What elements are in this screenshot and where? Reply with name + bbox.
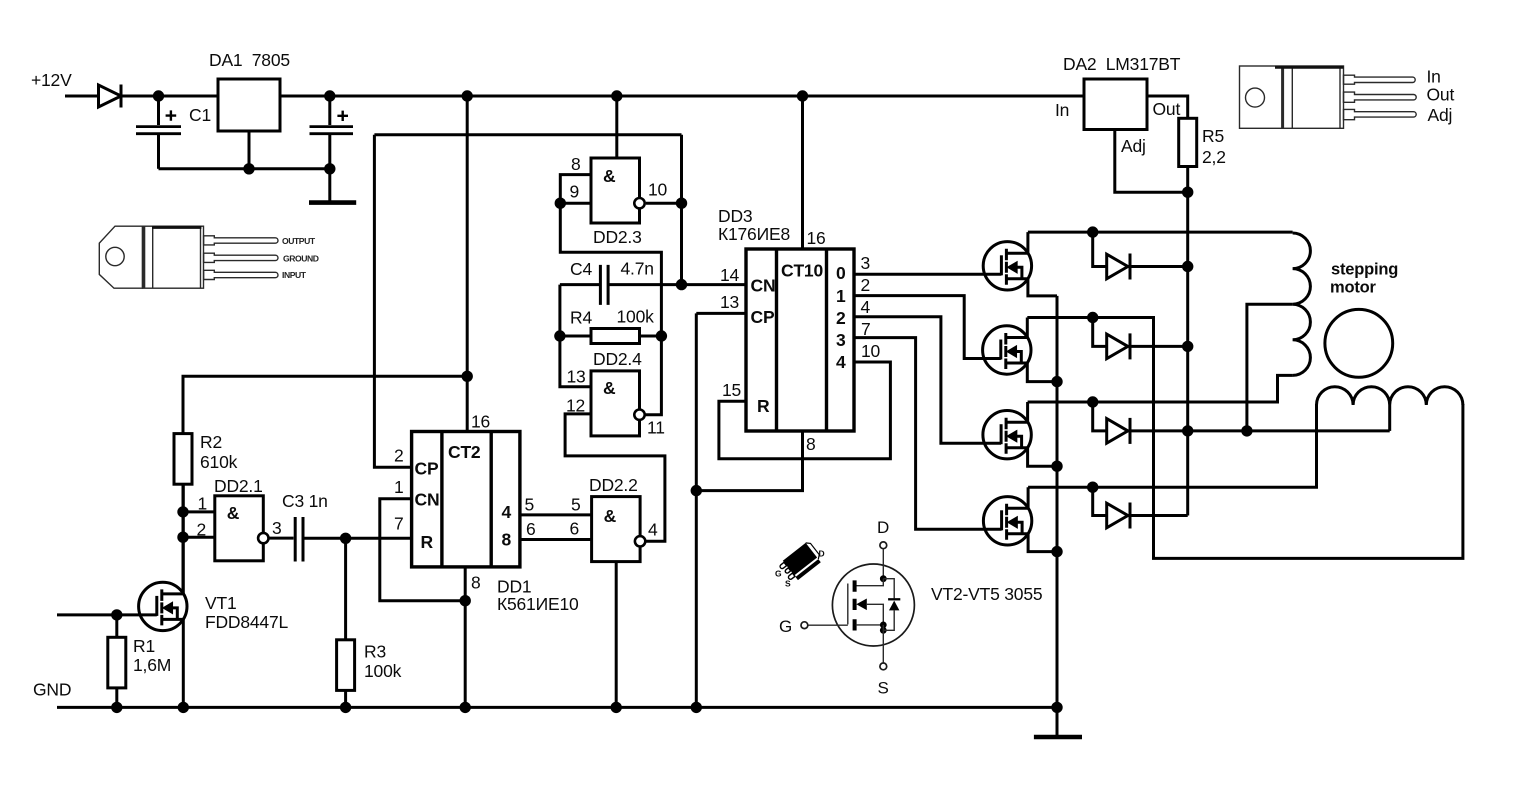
wire DD3 out2 to VT4 gate <box>854 317 1001 444</box>
resistor R2 610k <box>174 376 467 484</box>
svg-text:4: 4 <box>502 502 512 522</box>
svg-text:15: 15 <box>722 380 741 400</box>
wire DD1 CN to gnd loop <box>380 499 465 601</box>
wire DD2.3 pin9 <box>560 202 591 205</box>
diode VD3 <box>1093 318 1188 360</box>
resistor R1 1,6M <box>108 615 171 708</box>
svg-text:1: 1 <box>394 477 404 497</box>
wire DD3 pin16 power <box>801 96 804 249</box>
svg-text:7: 7 <box>861 319 871 339</box>
junction drain4/diode4 <box>1087 482 1098 493</box>
junction DA1 gnd / rail <box>243 163 254 174</box>
wire DD3 CP pin13 to gnd <box>696 313 746 707</box>
svg-text:2: 2 <box>861 275 871 295</box>
svg-text:4: 4 <box>836 352 846 372</box>
junction VT3 source <box>1051 376 1062 387</box>
svg-text:14: 14 <box>720 265 740 285</box>
wire DD2.3 output pin10 <box>646 202 682 205</box>
wire DD1 pin16 power vertical <box>466 96 469 432</box>
svg-text:Adj: Adj <box>1121 136 1146 156</box>
svg-text:G: G <box>779 617 792 636</box>
svg-text:VT2-VT5 3055: VT2-VT5 3055 <box>931 584 1042 604</box>
svg-text:2: 2 <box>836 308 846 328</box>
regulator DA1 7805 <box>209 50 290 131</box>
svg-text:DA2 LM317BT: DA2 LM317BT <box>1063 54 1181 74</box>
wire DD3 out0 to VT2 gate <box>854 273 1001 276</box>
junction gnd/R1 <box>111 702 122 713</box>
svg-text:6: 6 <box>526 519 536 539</box>
junction rail/DD1-16 <box>462 90 473 101</box>
logic gate DD2.3 <box>591 158 645 223</box>
junction C1 top node <box>153 90 164 101</box>
junction gnd/R3 <box>340 702 351 713</box>
label DD1 K561ИЕ10 <box>497 577 579 615</box>
svg-text:0: 0 <box>836 263 846 283</box>
diode VD input protection <box>99 85 122 108</box>
svg-text:In: In <box>1427 67 1441 87</box>
svg-text:R2: R2 <box>200 432 222 452</box>
wire DA2 out to R5 <box>1147 96 1188 118</box>
junction CN/pin8 <box>460 595 471 606</box>
wire R2 bottom to VT1 drain <box>182 484 185 594</box>
transistor symbol VT2-VT5 (3055) reference <box>801 542 914 670</box>
wire VT2 drain line to winding A top <box>1028 231 1293 234</box>
svg-text:16: 16 <box>807 228 826 248</box>
junction gnd/DD3 pins <box>691 702 702 713</box>
junction drain3/diode3 <box>1087 396 1098 407</box>
svg-text:8: 8 <box>502 530 512 550</box>
ground symbol (power section) <box>309 169 356 203</box>
svg-text:OUTPUT: OUTPUT <box>282 236 316 246</box>
wire C4 right to DD3 CN pin14 <box>610 283 747 286</box>
junction R2-line / DD1-16 <box>462 371 473 382</box>
wire DD2.3 output vertical <box>680 135 683 285</box>
label VT1 FDD8447L <box>205 593 288 632</box>
svg-text:C3 1n: C3 1n <box>282 491 328 511</box>
regulator DA2 LM317BT <box>1055 54 1181 156</box>
svg-text:G: G <box>775 569 782 579</box>
wire GND rail <box>57 706 1057 709</box>
svg-text:3: 3 <box>861 253 871 273</box>
svg-text:DD2.1: DD2.1 <box>214 476 263 496</box>
wire C4-left node to DD2.4 pin13 <box>560 285 591 387</box>
IC DD1 K561ИЕ10 counter CT2 <box>412 432 520 567</box>
label stepping motor <box>1330 261 1398 297</box>
diode VD5 <box>1093 487 1188 528</box>
svg-text:motor: motor <box>1330 279 1377 297</box>
junction supply/winding-A tap <box>1241 425 1252 436</box>
label DD3 K176ИЕ8 <box>718 206 790 244</box>
svg-text:DA1 7805: DA1 7805 <box>209 50 290 70</box>
junction DD2.1 pin2 <box>177 532 188 543</box>
wire DD1 output 4 (pin5) <box>520 513 592 516</box>
capacitor C3 1n <box>282 491 328 562</box>
svg-text:CT10: CT10 <box>781 261 823 281</box>
svg-text:2: 2 <box>197 520 207 540</box>
svg-text:INPUT: INPUT <box>282 270 307 280</box>
svg-text:&: & <box>604 506 617 526</box>
svg-text:5: 5 <box>525 495 535 515</box>
transistor VT2 (3055) <box>983 232 1057 296</box>
junction DD3 pin8/pin13 <box>691 485 702 496</box>
logic gate DD2.2 <box>592 497 646 562</box>
wire DD2.3 power pin from rail <box>615 96 618 158</box>
svg-text:CN: CN <box>415 490 440 510</box>
svg-text:D: D <box>877 518 889 537</box>
wire winding B center tap <box>1388 405 1391 431</box>
diode VD2 <box>1093 232 1188 279</box>
junction supply/diode3 <box>1182 425 1193 436</box>
junction supply/diode1 <box>1182 261 1193 272</box>
wire C3 to DD1 R pin 7 <box>305 537 412 540</box>
svg-text:2,2: 2,2 <box>1202 147 1226 167</box>
svg-text:4: 4 <box>648 520 658 540</box>
capacitor C4 4.7n <box>560 259 654 305</box>
wire VT1 gate lead <box>57 613 157 616</box>
svg-text:1: 1 <box>836 286 846 306</box>
svg-text:DD2.4: DD2.4 <box>593 349 642 369</box>
junction gnd/source rail <box>1051 702 1062 713</box>
junction DD2.3-out / clock node <box>676 279 687 290</box>
svg-text:GND: GND <box>33 680 71 700</box>
resistor R5 2,2 <box>1179 118 1226 167</box>
transistor VT5 (3055) <box>983 487 1057 551</box>
svg-text:8: 8 <box>806 434 816 454</box>
svg-text:R1: R1 <box>133 636 155 656</box>
svg-text:GROUND: GROUND <box>283 254 319 264</box>
wire rail branch to DD2.3/DD1-CP (horizontal y=134.7) <box>374 133 681 136</box>
svg-text:4: 4 <box>861 297 871 317</box>
svg-text:DD3: DD3 <box>718 206 752 226</box>
svg-text:12: 12 <box>566 396 585 416</box>
svg-text:C4: C4 <box>570 259 592 279</box>
svg-text:8: 8 <box>571 154 581 174</box>
svg-text:Out: Out <box>1153 99 1181 119</box>
junction VT4 source <box>1051 461 1062 472</box>
logic gate DD2.4 <box>591 371 645 436</box>
package drawing TO-220 DA2 pinout <box>1240 66 1417 128</box>
svg-text:C1: C1 <box>189 105 211 125</box>
junction drain2/diode2 <box>1087 312 1098 323</box>
svg-text:R: R <box>757 396 770 416</box>
svg-text:S: S <box>878 679 889 698</box>
svg-text:FDD8447L: FDD8447L <box>205 612 288 632</box>
junction R1/VT1 gate <box>111 609 122 620</box>
svg-text:6: 6 <box>570 519 580 539</box>
package drawing DPAK (FDD8447L) <box>778 541 824 584</box>
svg-text:DD2.3: DD2.3 <box>593 227 642 247</box>
wire DD2.4 output 11 up to DD2.3 inputs <box>560 175 661 415</box>
transistor VT4 (3055) <box>983 402 1057 466</box>
junction adj/R5 <box>1182 187 1193 198</box>
wire winding A center tap <box>1247 304 1293 431</box>
svg-text:R4: R4 <box>570 308 592 328</box>
svg-text:+12V: +12V <box>31 70 72 90</box>
package drawing TO-220 DA1 pinout <box>99 226 278 288</box>
svg-text:8: 8 <box>471 573 481 593</box>
wire vertical to DD1 CP pin 2 <box>374 135 411 468</box>
junction DA1 output node <box>324 90 335 101</box>
junction R4 left <box>554 330 565 341</box>
svg-text:610k: 610k <box>200 452 238 472</box>
wire R5 supply rail vertical <box>1186 167 1189 516</box>
wire source rail to ground <box>1056 296 1059 737</box>
junction C2 bottom / rail <box>324 163 335 174</box>
svg-text:1: 1 <box>198 494 208 514</box>
resistor R3 100k <box>337 538 402 707</box>
ground symbol (output stage) <box>1034 735 1082 740</box>
junction VT5 source <box>1051 546 1062 557</box>
junction DD2.3 output pin10 <box>676 198 687 209</box>
junction DD2.3 pins 8-9 tie <box>555 198 566 209</box>
junction rail/DD3-16 <box>797 90 808 101</box>
svg-text:3: 3 <box>272 518 282 538</box>
transistor VT3 (3055) <box>983 318 1057 382</box>
wire DD1 output 8 (pin6) <box>520 538 592 541</box>
wire DD2.1 output to C3 <box>269 537 294 540</box>
svg-text:13: 13 <box>567 367 586 387</box>
svg-text:Out: Out <box>1427 85 1455 105</box>
transistor VT1 FDD8447L <box>139 484 187 707</box>
svg-text:In: In <box>1055 100 1069 120</box>
svg-text:stepping: stepping <box>1331 261 1398 279</box>
logic gate DD2.1 <box>215 496 269 561</box>
svg-text:7: 7 <box>394 514 404 534</box>
wire DA1 ground pin <box>248 131 251 169</box>
svg-text:100k: 100k <box>617 307 655 327</box>
wire VT4 drain line to winding A bottom <box>1028 375 1293 402</box>
svg-text:9: 9 <box>570 182 580 202</box>
wire DD2.2 ground pin <box>615 562 618 708</box>
svg-text:10: 10 <box>648 180 668 200</box>
svg-text:3: 3 <box>836 330 846 350</box>
wire DD2.2 output to DD2.4 pin12 <box>565 414 665 541</box>
inductor winding A (stepper phase A) <box>1293 233 1311 375</box>
junction gnd/DD2.2 <box>611 702 622 713</box>
svg-text:VT1: VT1 <box>205 593 237 613</box>
svg-text:CP: CP <box>415 459 439 479</box>
svg-text:R: R <box>421 532 434 552</box>
svg-text:К176ИЕ8: К176ИЕ8 <box>718 224 790 244</box>
junction C3/R3/DD1-R node <box>340 533 351 544</box>
junction rail/DD2.3 power <box>611 90 622 101</box>
wire DA2 adj pin <box>1115 130 1188 193</box>
inductor winding B (stepper phase B) <box>1317 387 1463 405</box>
wire DD3 pin8 to gnd <box>696 431 802 491</box>
svg-text:DD2.2: DD2.2 <box>589 475 638 495</box>
svg-text:&: & <box>227 503 240 523</box>
svg-text:К561ИЕ10: К561ИЕ10 <box>497 594 579 614</box>
svg-text:&: & <box>603 378 616 398</box>
IC DD3 K176ИЕ8 counter CT10 <box>746 249 854 431</box>
wire VT5 drain line to winding B left end <box>1028 404 1316 487</box>
svg-text:CN: CN <box>751 276 776 296</box>
wire VT3 drain line to winding B right end <box>1027 318 1463 559</box>
svg-text:1,6M: 1,6M <box>133 655 171 675</box>
svg-text:13: 13 <box>720 292 739 312</box>
wire DD1 pin8 to gnd <box>464 567 467 708</box>
svg-text:11: 11 <box>647 418 665 438</box>
svg-text:10: 10 <box>861 341 881 361</box>
junction supply/diode2 <box>1182 341 1193 352</box>
wire DD3 reset loop: out4 pin10 to R pin15 <box>719 362 891 459</box>
svg-text:2: 2 <box>394 446 404 466</box>
wire +5V rail <box>280 95 1084 98</box>
svg-text:100k: 100k <box>364 661 402 681</box>
svg-text:CP: CP <box>751 307 775 327</box>
svg-text:R5: R5 <box>1202 126 1224 146</box>
capacitor C2 (output filter) <box>310 96 354 169</box>
svg-text:R3: R3 <box>364 642 386 662</box>
wire diode to DA1 input <box>121 95 218 98</box>
wire +12V input lead <box>65 95 99 98</box>
junction gnd/VT1 source <box>178 702 189 713</box>
resistor R4 100k <box>560 307 662 344</box>
svg-text:&: & <box>603 166 616 186</box>
wire DD3 out3 to VT5 gate <box>854 338 1002 530</box>
diode VD4 <box>1093 402 1390 444</box>
junction DD2.1 pin1 <box>177 506 188 517</box>
rotor circle (stepper motor) <box>1325 309 1393 377</box>
svg-text:S: S <box>785 579 791 589</box>
junction gnd/DD1 pin8 <box>460 702 471 713</box>
svg-text:16: 16 <box>471 412 490 432</box>
junction R4 right / DD2.4 out <box>656 330 667 341</box>
svg-text:CT2: CT2 <box>448 442 481 462</box>
svg-text:Adj: Adj <box>1428 105 1453 125</box>
svg-text:5: 5 <box>571 495 581 515</box>
junction drain1/diode1 <box>1087 226 1098 237</box>
svg-text:4.7n: 4.7n <box>621 259 654 279</box>
wire DD3 out1 to VT3 gate <box>854 296 1001 359</box>
wire DD2.1 input pins <box>183 512 215 537</box>
svg-text:D: D <box>819 549 825 559</box>
capacitor C1 <box>136 96 211 169</box>
wire capacitor bottom rail <box>159 167 330 170</box>
